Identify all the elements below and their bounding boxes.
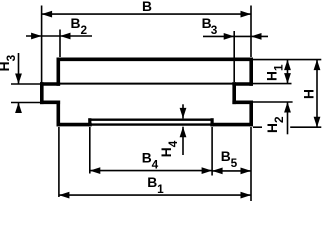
bottom edge middle thin part	[90, 123, 212, 125]
arrowhead H bottom	[314, 117, 321, 128]
right notch bottom edge	[232, 101, 252, 105]
dimension line H4 upper	[182, 104, 184, 118]
extension line B4/B5 mid	[211, 127, 213, 176]
svg-text:H: H	[302, 89, 317, 99]
arrowhead B5 right	[241, 168, 252, 175]
extension line right bottom a	[253, 126, 262, 128]
extension line H3 bottom	[11, 102, 40, 104]
extension line B4 left	[89, 127, 91, 174]
arrowhead B4 right	[202, 167, 213, 174]
dimension line B2	[26, 35, 92, 37]
profile left edge upper	[56, 58, 60, 86]
dimension line B1	[59, 194, 251, 196]
mid web line	[58, 83, 234, 85]
bottom edge right part	[210, 123, 253, 127]
arrowhead B2 left (outside, pointing right)	[31, 33, 41, 40]
arrowhead H3 upper (pointing down)	[15, 74, 22, 85]
profile right edge lower	[249, 101, 253, 127]
arrowhead B right	[241, 11, 252, 18]
profile right edge upper	[249, 58, 253, 86]
bottom edge left part	[57, 123, 92, 127]
dimension line H1	[287, 60, 289, 84]
extension line B left	[41, 6, 43, 84]
extension line right H2 top	[253, 101, 293, 103]
recess top line	[88, 118, 213, 120]
arrowhead B3 right (outside, pointing left)	[251, 33, 262, 40]
dimension line H4 lower	[182, 127, 184, 155]
profile top edge	[57, 57, 253, 61]
arrowhead H1 top	[284, 60, 291, 71]
arrowhead H top	[314, 60, 321, 71]
right notch inner edge	[232, 82, 236, 104]
dimension line H	[316, 60, 318, 128]
arrowhead B1 right	[241, 192, 252, 199]
left ear bottom edge	[40, 101, 60, 105]
right notch top edge	[232, 82, 252, 86]
arrowhead H2 top	[284, 102, 291, 113]
dimension line H3 lower	[18, 103, 20, 112]
arrowhead H4 lower (pointing up)	[180, 127, 187, 138]
extension line B1 left	[58, 127, 60, 197]
arrowhead B5 left	[212, 168, 223, 175]
left ear left edge	[40, 82, 44, 104]
dimension line H2	[287, 102, 289, 134]
extension line right top	[253, 59, 321, 61]
dimension line H3 upper	[18, 53, 20, 84]
recess right vertical	[211, 118, 214, 126]
dimension line B	[42, 13, 251, 15]
extension line right H1 bottom	[253, 83, 292, 85]
left ear top edge	[40, 82, 60, 86]
extension line B3 left	[233, 31, 235, 82]
dimension line B5	[212, 170, 251, 172]
arrowhead B1 left	[59, 192, 70, 199]
arrowhead H3 lower (pointing up)	[15, 103, 22, 114]
dimension line B4	[90, 170, 212, 172]
arrowhead B left	[42, 11, 53, 18]
extension line B right	[250, 6, 252, 58]
arrowhead B2 right (outside, pointing left)	[60, 33, 71, 40]
arrowhead B4 left	[90, 167, 101, 174]
extension line B1/B5 right	[250, 127, 252, 201]
extension line B2 right	[59, 30, 61, 58]
extension line right bottom b	[290, 126, 321, 128]
arrowhead H4 upper (pointing down)	[180, 108, 187, 119]
arrowhead H1 bottom	[284, 73, 291, 84]
svg-text:B: B	[142, 0, 152, 14]
profile left edge lower	[56, 101, 60, 127]
arrowhead B3 left (outside, pointing right)	[224, 33, 235, 40]
dimension line B3	[203, 35, 268, 37]
recess left vertical	[88, 118, 91, 126]
extension line H3 top	[11, 83, 40, 85]
